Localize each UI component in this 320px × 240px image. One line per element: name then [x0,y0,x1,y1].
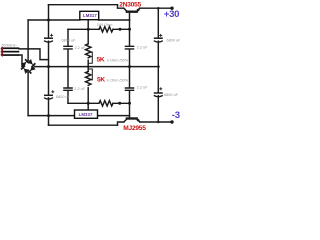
wire IN line bottom [28,115,74,117]
svg-text:2.2 uF: 2.2 uF [137,46,148,50]
transistor Q2 MJ2955 [124,119,127,122]
potentiometer P1 wiper [88,52,92,63]
wire cap C3 vertical [129,20,131,66]
wire -raw vertical [48,67,50,126]
transformer T1 secondary bars [2,47,20,56]
wire OUT line bottom [98,115,130,117]
svg-text:k Ohm /50%: k Ohm /50% [107,78,129,82]
svg-text:LM317: LM317 [83,13,97,18]
svg-text:MJ2955: MJ2955 [123,125,146,130]
potentiometer P2 wiper [88,69,92,80]
wire collector stub [118,5,124,9]
wire cap C5 vertical [67,67,69,104]
wire emitter to -30 [140,121,172,123]
transistor Q1 emitter arrow [137,8,141,12]
capacitor C4 6800uF plates (top right) [154,34,163,42]
wire +raw vertical lower (ground side) [48,41,50,66]
svg-text:2N3055: 2N3055 [119,1,141,8]
svg-text:50/60Hz~: 50/60Hz~ [2,43,19,47]
capacitor C2 2.2uF plates [63,46,73,49]
wire bottom rail [49,124,118,126]
wire base Q2 [129,103,131,118]
wire base Q1 [129,12,131,20]
svg-text:LM337: LM337 [79,112,93,117]
transformer CT wire [19,49,49,60]
wiper arrowheads [90,51,92,53]
potentiometer P1 5K [87,29,89,44]
capacitor C8 6800uF plates (bottom right) [154,87,163,97]
transistor Q1 2N3055 [124,8,127,11]
resistor R2 240 Ohm [99,101,113,106]
wire emitter to +30 [140,7,172,9]
svg-text:2.2 uF: 2.2 uF [137,85,148,89]
svg-text:2.2 uF: 2.2 uF [74,87,85,91]
transistor Q2 emitter arrow [137,119,141,123]
wire top rail [49,4,118,6]
svg-text:k Ohm /50%: k Ohm /50% [107,59,129,63]
capacitor C7 6800uF plates (bottom left) [44,90,54,99]
wire bridge- vertical [27,73,29,115]
svg-text:6800 uF: 6800 uF [56,95,71,99]
wire +raw vertical upper [48,5,50,38]
capacitor C6 2.2uF plates (bottom right) [125,88,135,90]
wire cap C6 vertical [129,67,131,104]
junction dots [47,7,174,124]
svg-text:6800 uF: 6800 uF [62,39,77,43]
wire ADJ rail bottom left [68,102,99,104]
wire OUT line top [99,19,130,21]
potentiometer P2 5K [87,67,89,72]
capacitor C3 2.2uF plates [125,46,135,49]
transformer AC2 wire [19,55,24,67]
svg-text:6800 uF: 6800 uF [167,39,181,43]
wire output cap vertical bottom [157,67,159,122]
wire output cap vertical top [157,8,159,66]
capacitor C5 2.2uF plates (bottom left) [63,88,73,90]
wire bridge+ vertical [27,20,29,60]
wire ADJ pin U2 [87,103,89,110]
wire cap C2 vertical [67,29,69,66]
svg-text:240 Ohm: 240 Ohm [97,23,113,27]
wire ADJ rail bottom right [113,102,130,104]
ground rail [35,66,159,68]
wire IN line top [28,19,80,21]
wire collector stub bottom [118,122,124,125]
op-amp U1 LM317 box [80,11,99,19]
svg-text:+30: +30 [164,9,179,20]
op-amp U2 LM337 box [75,110,98,118]
wire ADJ rail right [113,28,130,30]
svg-text:6800 uF: 6800 uF [164,93,179,97]
wire ADJ rail left [68,28,99,30]
capacitor C1 6800uF plates [44,34,53,42]
transformer T1 primary coil [2,47,4,56]
svg-text:2.2 uF: 2.2 uF [75,46,86,50]
wire ADJ pin U1 [87,20,89,30]
bridge rectifier BR1 [20,59,36,74]
resistor R1 240 Ohm [99,27,113,32]
svg-text:-30: -30 [172,110,180,121]
svg-text:5K: 5K [97,57,105,64]
svg-text:5K: 5K [97,76,105,83]
